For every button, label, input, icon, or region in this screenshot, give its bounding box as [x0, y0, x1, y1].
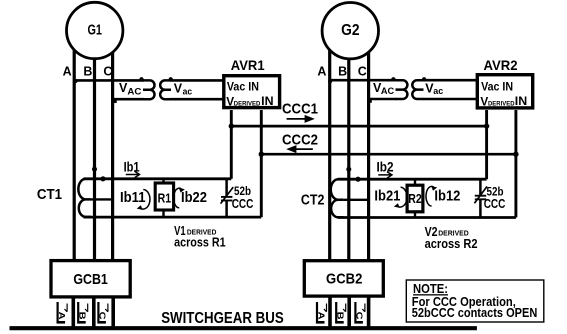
label IC G2: [354, 302, 365, 324]
svg-text:Vac IN: Vac IN: [481, 79, 513, 93]
junction dot phase C tap G1: [112, 99, 117, 103]
svg-text:CCC: CCC: [232, 197, 254, 211]
op-amp AVR1: [224, 76, 280, 108]
svg-text:ac: ac: [433, 86, 443, 96]
junction dot phase A tap G1: [74, 79, 78, 83]
wire PT secondary bottom to AVR2: [423, 98, 478, 101]
wire GCB2 stub A: [328, 296, 332, 327]
svg-text:CCC: CCC: [484, 197, 506, 211]
svg-text:R1: R1: [158, 190, 172, 205]
wire phase C of G2: [367, 38, 370, 260]
wire CT1 secondary top (Ib1): [84, 177, 232, 180]
svg-text:across R2: across R2: [425, 237, 478, 251]
svg-text:CT1: CT1: [37, 186, 63, 203]
svg-text:C: C: [103, 64, 112, 78]
svg-text:Ib21: Ib21: [374, 188, 400, 205]
svg-text:B: B: [335, 312, 345, 320]
arrow Ib11 circulating: [140, 190, 150, 210]
contact 52b CCC G1: [225, 179, 228, 196]
wire CT1 secondary bottom: [84, 216, 262, 219]
junction dot phase A tap G2: [328, 79, 332, 83]
junction dot on Ib1 wire: [100, 176, 105, 181]
wire PT secondary bottom to AVR1: [170, 98, 224, 101]
wire PT primary bottom G1: [113, 98, 144, 101]
svg-text:G2: G2: [341, 22, 359, 39]
svg-text:C: C: [354, 312, 364, 320]
arrow CCC2 left: [295, 148, 313, 150]
wire CT2 middle tap to phase C: [343, 199, 368, 201]
label IC G1: [97, 302, 108, 324]
wire phase C of G1: [111, 38, 114, 260]
junction dot CCC2 right: [513, 152, 518, 157]
svg-text:C: C: [358, 64, 367, 78]
wire CT2 secondary top (Ib2): [338, 178, 487, 181]
svg-text:Ib2: Ib2: [377, 160, 394, 176]
wire GCB1 stub A: [72, 297, 76, 328]
svg-text:G1: G1: [87, 22, 102, 38]
svg-text:GCB2: GCB2: [326, 270, 362, 287]
wire phase B of G2: [347, 38, 350, 260]
svg-text:A: A: [316, 312, 326, 320]
breaker GCB2: [304, 261, 383, 296]
svg-text:R2: R2: [408, 191, 422, 206]
svg-text:52bCCC contacts OPEN: 52bCCC contacts OPEN: [412, 306, 538, 320]
wire phase B of G1: [93, 38, 96, 260]
polarity dot PT secondary G2: [422, 77, 426, 81]
junction dot on Ib2 wire: [355, 177, 360, 182]
svg-text:GCB1: GCB1: [73, 271, 108, 288]
svg-text:CT2: CT2: [301, 191, 325, 208]
wire phase A of G2: [328, 38, 331, 260]
svg-text:across R1: across R1: [174, 235, 226, 249]
breaker GCB1: [51, 261, 130, 297]
polarity dot PT primary G2: [391, 77, 395, 81]
wire GCB1 stub B: [92, 297, 96, 328]
polarity dot CT2 primary on phase B: [346, 167, 351, 172]
polarity dot PT primary G1: [139, 77, 143, 81]
svg-text:A: A: [317, 64, 326, 78]
arrow Ib22 circulating: [174, 188, 183, 208]
label IA G1: [56, 302, 67, 324]
generator G1: [67, 2, 123, 58]
junction dot CCC2 left: [259, 152, 264, 157]
wire GCB2 stub C: [367, 296, 371, 327]
generator G2: [322, 3, 378, 59]
svg-text:B: B: [338, 64, 347, 78]
svg-text:A: A: [63, 64, 72, 78]
svg-text:IN: IN: [515, 94, 527, 108]
svg-text:SWITCHGEAR BUS: SWITCHGEAR BUS: [161, 310, 284, 327]
junction dot CCC1 right: [484, 123, 489, 128]
wire phase A of G1: [73, 38, 76, 260]
arrow Ib21 circulating: [397, 187, 407, 207]
op-amp AVR2: [477, 75, 532, 108]
wire CCC1: [231, 125, 486, 128]
svg-text:B: B: [77, 312, 87, 320]
svg-text:DERIVED: DERIVED: [488, 100, 515, 107]
transformer PT secondary winding G1: [160, 80, 171, 99]
arrow Ib1 right: [126, 171, 140, 177]
wire CT1 middle tap to phase C: [91, 198, 113, 200]
wire AVR2 right pin down: [514, 110, 517, 218]
transformer PT primary winding G1: [143, 80, 155, 99]
resistor R2: [414, 179, 416, 185]
polarity dot CT1 primary on phase B: [92, 167, 97, 172]
contact 52b CCC G2: [479, 179, 482, 195]
svg-text:Ib11: Ib11: [120, 189, 146, 206]
junction dot phase C tap G2: [367, 98, 372, 102]
svg-text:Ib12: Ib12: [434, 188, 460, 205]
current transformer CT1 winding: [78, 179, 91, 217]
svg-text:DERIVED: DERIVED: [234, 100, 261, 107]
svg-text:AC: AC: [127, 86, 142, 96]
svg-text:AVR2: AVR2: [484, 57, 518, 73]
svg-text:AC: AC: [381, 86, 395, 96]
resistor R1: [162, 179, 164, 183]
current transformer CT2 winding: [331, 179, 344, 217]
label IA G2: [316, 302, 327, 324]
junction dot CCC1 left: [229, 123, 234, 128]
svg-text:A: A: [56, 312, 66, 320]
switchgear bus: [10, 326, 477, 330]
svg-text:C: C: [97, 312, 107, 320]
wire AVR2 left pin down: [485, 110, 488, 179]
wire PT secondary top to AVR2: [423, 79, 478, 82]
arrow CCC1 right: [287, 118, 306, 120]
svg-text:V: V: [174, 81, 183, 95]
wire PT primary bottom G2: [369, 98, 397, 101]
wire PT secondary top to AVR1: [170, 79, 224, 82]
svg-text:IN: IN: [261, 94, 273, 108]
wire PT primary top G2: [330, 79, 397, 82]
label IB G1: [77, 302, 88, 324]
wire CT2 secondary bottom: [338, 216, 516, 219]
polarity dot PT secondary G1: [169, 77, 173, 81]
wire AVR1 right pin down: [260, 110, 263, 217]
wire AVR1 left pin down: [230, 110, 233, 179]
svg-text:B: B: [83, 64, 92, 78]
label IB G2: [335, 302, 346, 324]
arrow Ib12 circulating: [426, 186, 435, 206]
wire GCB1 stub C: [111, 297, 115, 328]
transformer PT primary winding G2: [396, 80, 408, 99]
svg-text:AVR1: AVR1: [231, 57, 265, 73]
svg-text:Ib22: Ib22: [181, 189, 207, 206]
svg-text:CCC1: CCC1: [282, 102, 318, 118]
arrow Ib2 right: [378, 172, 392, 178]
svg-text:ac: ac: [183, 86, 193, 96]
wire PT primary top G1: [74, 79, 144, 82]
svg-text:CCC2: CCC2: [282, 133, 318, 149]
note box: [406, 280, 544, 322]
transformer PT secondary winding G2: [412, 80, 423, 99]
svg-text:Vac IN: Vac IN: [227, 79, 259, 93]
wire CCC2: [261, 153, 516, 156]
wire GCB2 stub B: [347, 296, 351, 327]
